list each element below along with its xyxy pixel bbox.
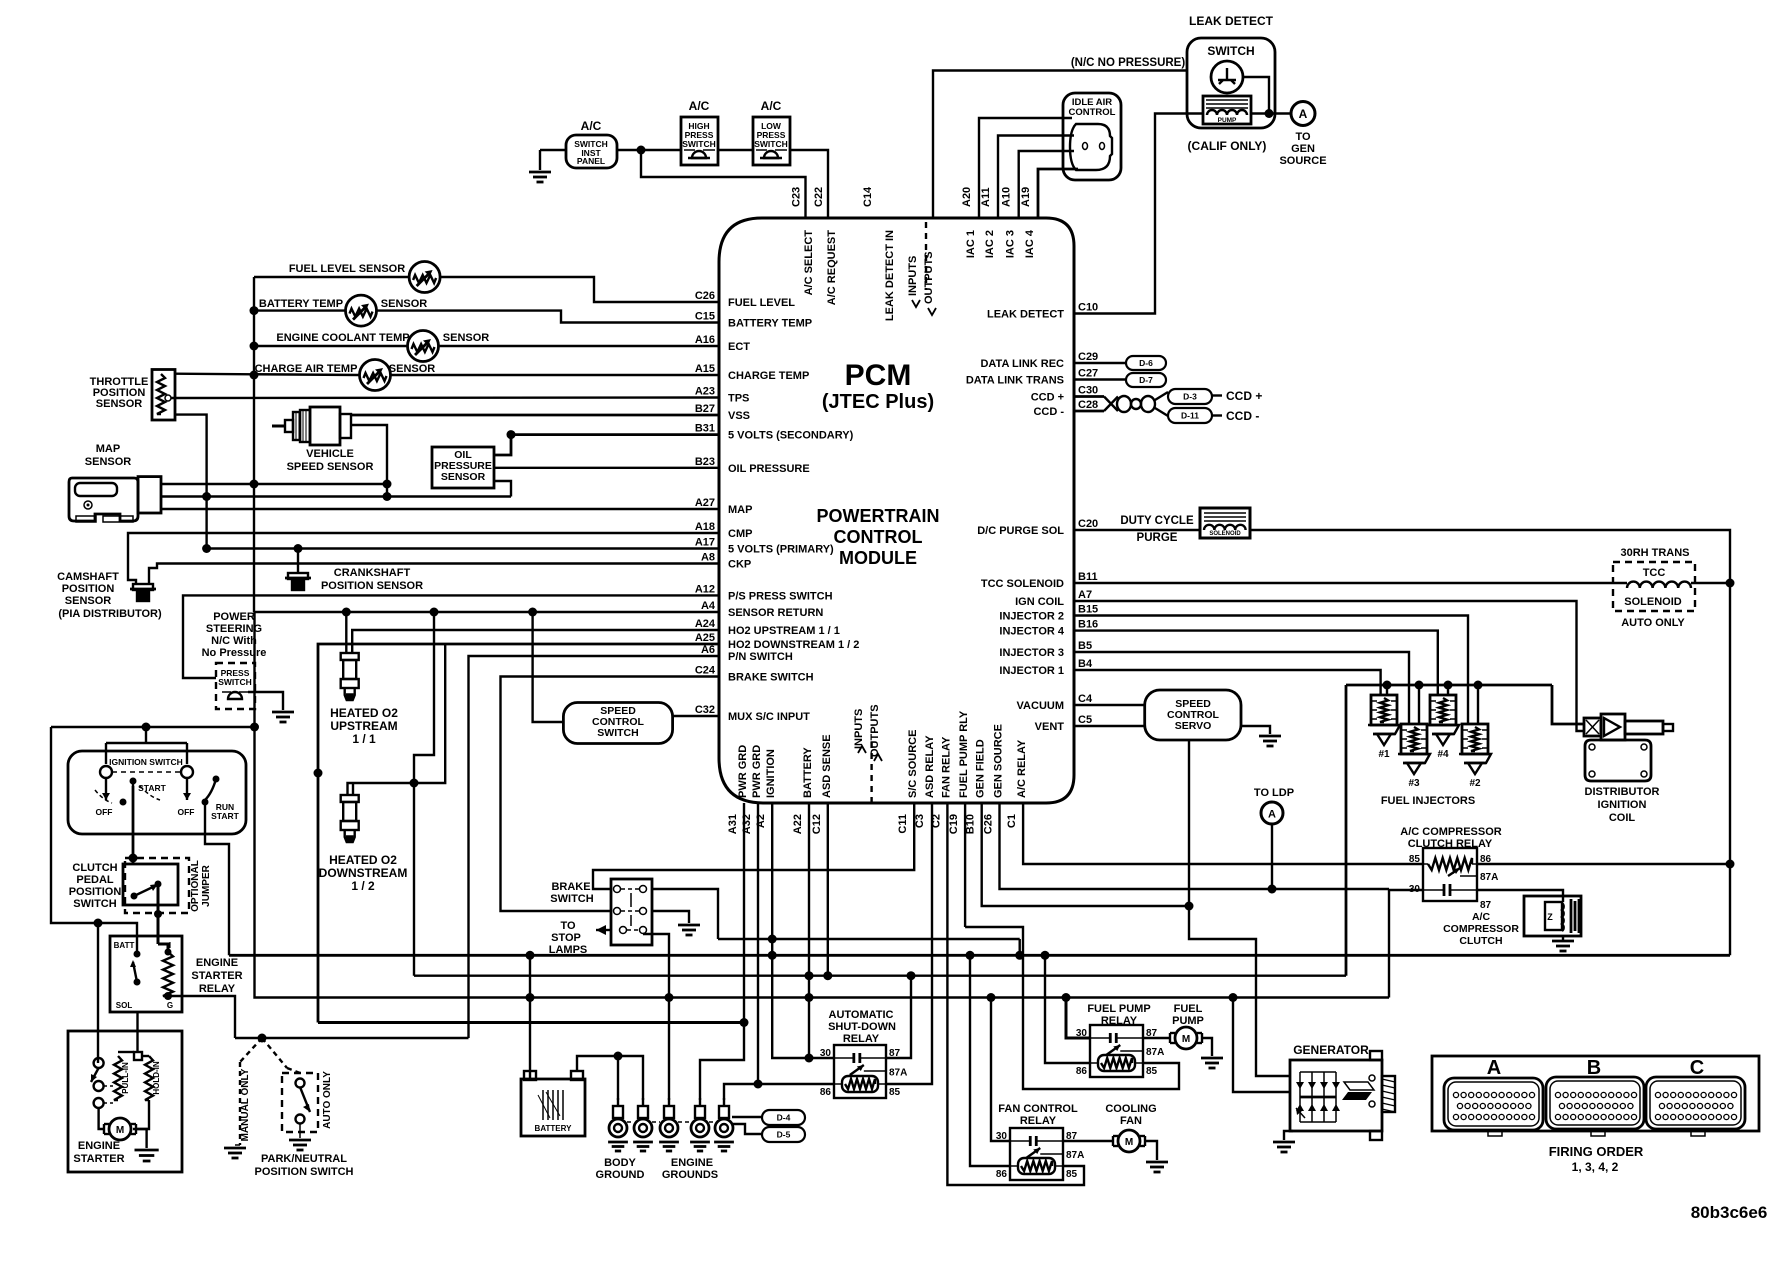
wire injector supply bus [1346, 684, 1552, 687]
svg-text:OUTPUTS: OUTPUTS [923, 251, 935, 304]
svg-text:MAP: MAP [96, 443, 120, 455]
brake switch box [611, 879, 652, 945]
svg-text:OIL PRESSURE: OIL PRESSURE [728, 463, 810, 475]
wire starter relay SOL to engine starter [136, 1012, 138, 1052]
node A to LDP [1261, 802, 1283, 824]
wire clutch switch to starter relay [157, 884, 160, 944]
connector C [1646, 1077, 1745, 1129]
svg-text:D/C PURGE SOL: D/C PURGE SOL [977, 525, 1064, 537]
connector mounting tabs [1488, 1131, 1502, 1136]
motor cooling fan [1112, 1136, 1114, 1146]
wire asd relay 86 to pwr grd [758, 1083, 834, 1085]
wire B4 injector 1 [1074, 670, 1381, 695]
junction node A/C select [637, 146, 646, 155]
wire map signal to A27 [161, 508, 719, 510]
junction node TPS map wire [202, 492, 211, 501]
wire B5 injector 3 [1074, 652, 1409, 724]
svg-text:FUEL LEVEL: FUEL LEVEL [728, 297, 795, 309]
wire C12 asd sense pin down [827, 803, 829, 976]
svg-text:PURGE: PURGE [1137, 532, 1178, 544]
svg-text:TCC SOLENOID: TCC SOLENOID [981, 578, 1064, 590]
svg-text:BATTERY TEMP: BATTERY TEMP [728, 318, 812, 330]
svg-text:1 / 1: 1 / 1 [352, 732, 376, 746]
svg-text:PARK/NEUTRAL: PARK/NEUTRAL [261, 1153, 347, 1165]
svg-text:CCD +: CCD + [1226, 389, 1262, 403]
wire injector feed from asd bus [1345, 685, 1348, 976]
svg-text:OFF: OFF [178, 807, 195, 817]
relay K3 fuel pump [1090, 1025, 1143, 1077]
svg-text:A/C RELAY: A/C RELAY [1016, 739, 1028, 798]
svg-text:G: G [167, 1001, 173, 1010]
svg-text:C22: C22 [813, 187, 825, 207]
svg-text:P/N SWITCH: P/N SWITCH [728, 651, 793, 663]
wire second pin downstream sensor [352, 783, 354, 795]
svg-text:POSITION: POSITION [69, 886, 122, 898]
svg-text:SWITCH: SWITCH [218, 677, 252, 687]
wire injector stubs [1386, 685, 1388, 695]
wire generator to ground [1284, 1131, 1293, 1140]
wire asd 87 to injector feed bus [886, 976, 911, 1058]
svg-text:SENSOR: SENSOR [85, 456, 132, 468]
svg-text:C32: C32 [695, 704, 715, 716]
svg-text:C20: C20 [1078, 518, 1098, 530]
wire C29 data link rec [1074, 362, 1126, 364]
wire ac relay 87 to clutch [1477, 890, 1563, 902]
junction node downstream return [410, 779, 419, 788]
svg-text:A: A [1268, 809, 1276, 821]
svg-text:PULL-IN: PULL-IN [121, 1062, 130, 1094]
svg-text:5 VOLTS (SECONDARY): 5 VOLTS (SECONDARY) [728, 430, 854, 442]
wire A25 HO2 downstream signal [318, 644, 719, 1023]
junction node O2 downstream return [430, 608, 439, 617]
svg-text:C3: C3 [914, 814, 926, 828]
svg-text:BATTERY: BATTERY [535, 1124, 573, 1133]
junction node C12 asd sense [823, 971, 832, 980]
connector A [1444, 1078, 1543, 1130]
svg-text:SOLENOID: SOLENOID [1209, 531, 1241, 537]
connector D-3 [1168, 389, 1212, 404]
svg-text:D-7: D-7 [1139, 375, 1153, 385]
wire ignition terminals [106, 742, 187, 744]
svg-text:PWR GRD: PWR GRD [737, 745, 749, 798]
wire ignition feed upper [51, 726, 255, 728]
svg-text:A7: A7 [1078, 589, 1092, 601]
wire sensor return lower bus [255, 612, 1390, 998]
svg-text:CCD -: CCD - [1033, 406, 1064, 418]
junction node starter feed [94, 919, 103, 928]
junction node O2 upstream return [342, 608, 351, 617]
svg-text:A4: A4 [701, 600, 716, 612]
connector D-6 [1126, 356, 1166, 370]
wire starter relay G output [168, 996, 235, 1038]
svg-text:BRAKE: BRAKE [551, 881, 590, 893]
svg-text:CONTROL: CONTROL [834, 527, 923, 547]
wire heater ground bus y1022 [318, 1021, 744, 1024]
svg-text:SENSOR: SENSOR [443, 332, 490, 344]
park neutral position switch dashed box [282, 1073, 318, 1132]
wire servo down to gen field line [1188, 740, 1190, 906]
CCD twisted pair [1074, 395, 1104, 398]
svg-text:RELAY: RELAY [199, 983, 236, 995]
svg-text:POSITION SENSOR: POSITION SENSOR [321, 580, 423, 592]
wire main 12V bus y955 [229, 954, 1730, 957]
svg-text:B27: B27 [695, 403, 715, 415]
svg-text:LEAK DETECT: LEAK DETECT [1189, 14, 1274, 28]
wire motor to ground [137, 1129, 147, 1148]
svg-text:A15: A15 [695, 363, 715, 375]
svg-text:MUX S/C INPUT: MUX S/C INPUT [728, 711, 810, 723]
ground for A/C switch inst panel [539, 150, 541, 170]
wire A/C select junction to C23 pin [641, 150, 806, 218]
svg-text:PUMP: PUMP [1218, 117, 1237, 124]
wire B31 5 volts secondary [511, 433, 719, 436]
svg-text:A/C: A/C [761, 99, 782, 113]
ground brake switch [678, 924, 700, 927]
wire A6 P/N switch [469, 656, 720, 1038]
svg-text:C26: C26 [983, 814, 995, 834]
wire A31 pwr grd to engine ground [700, 803, 744, 1100]
junction node battery feed [526, 951, 535, 960]
svg-text:SWITCH: SWITCH [597, 727, 638, 739]
wire switch to pump junction [1243, 77, 1269, 114]
junction node fan relay 86 drop [966, 951, 975, 960]
svg-text:SWITCH: SWITCH [682, 139, 716, 149]
svg-text:85: 85 [889, 1087, 901, 1098]
ground park neutral switch [289, 1139, 311, 1142]
svg-text:CHARGE TEMP: CHARGE TEMP [728, 370, 809, 382]
svg-text:IGN COIL: IGN COIL [1015, 596, 1064, 608]
wire A25 branch down to downstream sensor [348, 644, 446, 795]
wire fuel pump relay 85 to C19 [965, 927, 1179, 1089]
junction node fan relay 30 drop [987, 993, 996, 1002]
svg-text:SENSOR: SENSOR [441, 471, 486, 483]
svg-text:FUEL PUMP: FUEL PUMP [1087, 1003, 1150, 1015]
svg-text:SENSOR RETURN: SENSOR RETURN [728, 607, 823, 619]
svg-text:SWITCH: SWITCH [73, 898, 116, 910]
junction node injector 1 feed [1383, 681, 1392, 690]
engine ground lug 2 [642, 1098, 644, 1106]
svg-text:A/C: A/C [581, 119, 602, 133]
svg-text:VENT: VENT [1035, 721, 1065, 733]
wire batt feed to starter relay [51, 727, 137, 954]
svg-text:87A: 87A [1146, 1047, 1164, 1058]
wire battery negative to grounds [577, 1056, 643, 1100]
junction node servo gen field [1185, 902, 1194, 911]
svg-text:B15: B15 [1078, 604, 1098, 616]
svg-text:ENGINE COOLANT TEMP: ENGINE COOLANT TEMP [276, 332, 409, 344]
svg-text:AUTO ONLY: AUTO ONLY [322, 1071, 333, 1129]
resistor engine coolant temp sensor [408, 331, 439, 362]
wire camshaft sensor to A18 CMP [128, 533, 719, 584]
wire A7 ign coil [1074, 601, 1584, 731]
starter terminal square [134, 1052, 142, 1060]
ignition switch arms [105, 778, 107, 800]
svg-text:PWR GRD: PWR GRD [751, 745, 763, 798]
svg-text:C4: C4 [1078, 693, 1093, 705]
wire ignition to asd 30 [772, 939, 834, 1058]
wire VSS to B27 [351, 414, 719, 417]
svg-text:A11: A11 [980, 187, 992, 207]
junction node injector 3 feed [1415, 681, 1424, 690]
junction node TPS 5v primary [202, 544, 211, 553]
svg-text:INJECTOR 2: INJECTOR 2 [999, 611, 1064, 623]
svg-text:SERVO: SERVO [1175, 720, 1212, 732]
svg-text:A16: A16 [695, 334, 715, 346]
wire B15 injector 2 [1074, 616, 1468, 725]
svg-text:Z: Z [1547, 912, 1553, 922]
svg-text:CCD +: CCD + [1031, 392, 1064, 404]
wire A24 HO2 upstream signal [352, 630, 719, 653]
wire C24 brake switch [501, 677, 720, 912]
wire crankshaft sensor to A17 5 volts primary [297, 549, 299, 574]
relay K1 automatic shut-down [834, 1045, 886, 1098]
sensor ground bus wire [253, 277, 255, 612]
wire sensor return to speed control switch [533, 612, 564, 722]
wire ignition bus y939 left segment [718, 938, 1020, 940]
junction node VSS sensor return [383, 480, 392, 489]
svg-text:A8: A8 [701, 552, 715, 564]
junction node A22 batt bus [805, 993, 814, 1002]
starter pull-in coil [114, 1056, 122, 1100]
wire purge to right margin bus [1250, 530, 1730, 955]
svg-text:INJECTOR 4: INJECTOR 4 [999, 626, 1064, 638]
svg-text:A: A [1487, 1057, 1501, 1079]
svg-text:C12: C12 [811, 814, 823, 834]
svg-text:SHUT-DOWN: SHUT-DOWN [828, 1021, 896, 1033]
ground generator [1273, 1141, 1295, 1144]
svg-text:S/C SOURCE: S/C SOURCE [907, 730, 919, 798]
svg-text:VSS: VSS [728, 410, 750, 422]
svg-text:85: 85 [1146, 1066, 1158, 1077]
wire ignition start to clutch switch [132, 786, 135, 864]
svg-text:D-5: D-5 [777, 1130, 791, 1140]
ac compressor clutch symbol [1524, 896, 1581, 936]
svg-text:STOP: STOP [551, 932, 581, 944]
svg-text:VEHICLE: VEHICLE [306, 448, 354, 460]
wire run start to bus [205, 802, 229, 955]
ground manual only [224, 1147, 246, 1150]
junction node injector 2 feed [1474, 681, 1483, 690]
junction node battery to lower bus [526, 993, 535, 1002]
wire B11 TCC solenoid [1074, 582, 1627, 584]
wire TPS wiper to A23 [171, 396, 719, 399]
engine ground lug 3 [668, 1098, 670, 1106]
junction node oil pressure 5v [507, 430, 516, 439]
svg-text:AUTO ONLY: AUTO ONLY [1621, 617, 1685, 629]
svg-text:C14: C14 [862, 186, 874, 207]
svg-text:D-4: D-4 [777, 1113, 791, 1123]
CCD plus label [1212, 394, 1222, 396]
svg-text:ASD SENSE: ASD SENSE [821, 734, 833, 798]
svg-text:HEATED O2: HEATED O2 [330, 706, 398, 720]
svg-text:C29: C29 [1078, 351, 1098, 363]
connector B [1546, 1077, 1644, 1129]
ground fuel pump [1201, 1057, 1223, 1060]
svg-text:TO LDP: TO LDP [1254, 787, 1294, 799]
svg-text:#2: #2 [1469, 778, 1481, 789]
wire generator output [1233, 998, 1290, 1093]
wire IAC3 A10 [1019, 151, 1074, 218]
starter switch contacts [94, 1058, 104, 1068]
optional jumper dashed box [125, 858, 189, 913]
svg-text:A19: A19 [1020, 187, 1032, 207]
svg-text:DOWNSTREAM: DOWNSTREAM [319, 866, 408, 880]
engine ground lug 4 [699, 1098, 701, 1106]
wire low press switch to C22 A/C request pin [790, 150, 828, 218]
wire y1038 bus [235, 1037, 469, 1039]
motor engine starter [103, 1124, 105, 1134]
svg-text:No Pressure: No Pressure [202, 647, 267, 659]
svg-text:COIL: COIL [1609, 812, 1636, 824]
svg-text:GEN SOURCE: GEN SOURCE [993, 724, 1005, 798]
dashed wire auto only branch [262, 1038, 287, 1068]
svg-text:CONTROL: CONTROL [1069, 107, 1116, 118]
generator side hatch [1382, 1076, 1395, 1112]
wire fan relay 87 to cooling fan [1063, 1140, 1112, 1142]
wire sensor return branch downstream [414, 612, 434, 783]
svg-text:C24: C24 [695, 665, 716, 677]
speed control switch box [563, 703, 672, 744]
wire B16 injector 4 [1074, 631, 1438, 695]
wire TPS low to sensor return [175, 415, 207, 549]
svg-text:CKP: CKP [728, 559, 751, 571]
wire press switch to ground [248, 692, 283, 710]
wire sensor return branch to asd sense bus [413, 783, 415, 976]
crankshaft position sensor symbol [285, 577, 311, 580]
svg-text:M: M [1125, 1137, 1133, 1148]
wire charge air temp sensor to A15 [175, 374, 360, 375]
svg-text:A12: A12 [695, 583, 715, 595]
junction node injector 4 feed [1444, 681, 1453, 690]
junction node A22 battery [805, 971, 814, 980]
svg-text:85: 85 [1066, 1169, 1078, 1180]
svg-text:A6: A6 [701, 644, 715, 656]
svg-text:SWITCH: SWITCH [550, 893, 593, 905]
oil pressure sensor box [432, 447, 494, 488]
wire C4 vacuum [1074, 704, 1145, 706]
svg-text:D-11: D-11 [1181, 411, 1199, 421]
svg-text:A/C REQUEST: A/C REQUEST [826, 230, 838, 305]
svg-text:M: M [1182, 1034, 1190, 1045]
CCD minus label [1212, 414, 1222, 416]
svg-text:HO2 DOWNSTREAM 1 / 2: HO2 DOWNSTREAM 1 / 2 [728, 639, 859, 651]
wire fuel pump relay 86 feed [1045, 955, 1090, 1063]
wire map sensor return [161, 483, 387, 485]
svg-text:CAMSHAFT: CAMSHAFT [57, 571, 119, 583]
junction node stop lamp ground feed [665, 993, 674, 1002]
junction node VSS map mid wire [383, 492, 392, 501]
svg-text:B11: B11 [1078, 571, 1098, 583]
resistor throttle position sensor [152, 370, 175, 421]
wire sensor return to O2 upstream [345, 612, 347, 653]
svg-text:B10: B10 [965, 814, 977, 834]
svg-text:PEDAL: PEDAL [76, 874, 114, 886]
relay K4 fan control [1010, 1128, 1063, 1180]
O2 sensor upstream symbol [341, 653, 359, 660]
svg-text:B23: B23 [695, 456, 715, 468]
ground ac compressor clutch [1552, 940, 1574, 943]
svg-text:86: 86 [996, 1169, 1008, 1180]
junction node map sensor return bus [250, 480, 259, 489]
svg-text:(PIA DISTRIBUTOR): (PIA DISTRIBUTOR) [58, 608, 162, 620]
svg-text:#3: #3 [1408, 778, 1420, 789]
leak detect pump coil box [1203, 96, 1251, 124]
svg-text:DUTY CYCLE: DUTY CYCLE [1120, 515, 1194, 527]
ground engine starter [135, 1149, 159, 1152]
svg-text:IAC 3: IAC 3 [1005, 230, 1017, 258]
fuel injector #4 [1430, 695, 1456, 725]
svg-text:ENGINE: ENGINE [671, 1157, 713, 1169]
svg-text:INPUTS: INPUTS [907, 256, 919, 296]
wire stub to ac relay 30 [1389, 889, 1423, 891]
svg-text:A: A [1299, 107, 1308, 121]
svg-text:C26: C26 [695, 290, 715, 302]
wire oil pressure low to map mid wire [494, 481, 511, 497]
svg-text:87A: 87A [1480, 872, 1498, 883]
ignition switch box [68, 751, 246, 834]
svg-text:JUMPER: JUMPER [201, 864, 212, 906]
junction node sensor bus charge air [250, 371, 259, 380]
svg-text:A23: A23 [695, 386, 715, 398]
svg-text:DATA LINK REC: DATA LINK REC [980, 358, 1064, 370]
svg-text:POSITION SWITCH: POSITION SWITCH [255, 1166, 354, 1178]
svg-text:MAP: MAP [728, 504, 752, 516]
svg-text:A/C COMPRESSOR: A/C COMPRESSOR [1400, 826, 1502, 838]
wire fan relay 86 feed [970, 955, 1010, 1166]
svg-text:C10: C10 [1078, 302, 1098, 314]
svg-text:GEN FIELD: GEN FIELD [975, 739, 987, 798]
svg-text:B4: B4 [1078, 658, 1093, 670]
svg-text:SOLENOID: SOLENOID [1624, 596, 1682, 608]
junction node AC relay 12v [1726, 860, 1735, 869]
wire oil pressure sensor to 5 volts [494, 435, 511, 455]
press switch dashed box [216, 663, 255, 709]
svg-text:C27: C27 [1078, 368, 1098, 380]
svg-text:OPTIONAL: OPTIONAL [190, 860, 201, 912]
vehicle speed sensor symbol [272, 425, 285, 428]
wire high press to low press switch [718, 149, 753, 151]
svg-text:ASD RELAY: ASD RELAY [924, 735, 936, 798]
svg-text:C1: C1 [1006, 814, 1018, 828]
connector D-7 [1126, 373, 1166, 387]
junction node ignition batt [142, 723, 151, 732]
junction node park neutral drop [258, 1034, 267, 1043]
starter hold-in coil [145, 1056, 153, 1100]
junction node fuel pump 30 drop [1062, 993, 1071, 1002]
svg-text:TO: TO [560, 920, 576, 932]
wire IAC1 A20 [979, 118, 1072, 218]
svg-text:B5: B5 [1078, 640, 1092, 652]
svg-text:#4: #4 [1437, 749, 1449, 760]
resistor battery temp sensor [346, 295, 377, 326]
svg-text:A25: A25 [695, 632, 715, 644]
svg-text:RELAY: RELAY [843, 1033, 880, 1045]
svg-text:STARTER: STARTER [73, 1153, 124, 1165]
wire C19 fuel pump rly pin [964, 803, 966, 927]
svg-text:A/C: A/C [1472, 911, 1491, 923]
svg-text:N/C With: N/C With [211, 635, 257, 647]
svg-text:86: 86 [1076, 1066, 1088, 1077]
wire servo to ground [1241, 726, 1270, 734]
svg-text:SWITCH: SWITCH [754, 139, 788, 149]
wire fuel pump to ground [1202, 1038, 1212, 1056]
svg-text:POSITION: POSITION [62, 583, 115, 595]
svg-text:FAN RELAY: FAN RELAY [940, 736, 952, 798]
svg-text:BODY: BODY [604, 1157, 636, 1169]
wire gen source to ac relay 30 [1000, 803, 1390, 889]
svg-text:INPUTS: INPUTS [853, 709, 865, 749]
wire fuel pump relay 30 feed [1066, 998, 1090, 1039]
